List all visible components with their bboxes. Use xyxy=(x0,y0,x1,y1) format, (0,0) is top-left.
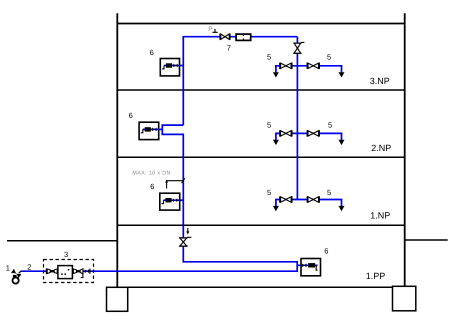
svg-text:2: 2 xyxy=(27,262,31,271)
valve 5 right 3.NP xyxy=(306,63,308,69)
valve 5 left 1.NP xyxy=(279,196,281,202)
wire: 1.NP branch arm xyxy=(276,200,342,207)
wire: right distribution riser xyxy=(296,37,298,200)
wire: 1.PP horizontal to left riser xyxy=(183,261,298,263)
basement floor slab xyxy=(128,286,393,288)
dashed enclosure box 3 xyxy=(44,260,94,283)
outlet arrow left 2.NP xyxy=(273,140,279,145)
svg-text:5: 5 xyxy=(267,188,271,197)
svg-text:5: 5 xyxy=(328,120,332,129)
svg-text:2.NP: 2.NP xyxy=(371,143,391,153)
valve at top pipe xyxy=(219,34,221,40)
check valve (filled) xyxy=(85,269,87,273)
building right wall xyxy=(404,13,406,286)
wire: street service pipe (node 2) xyxy=(21,270,298,272)
svg-text:P: P xyxy=(208,26,212,33)
floor slab above 1.NP (bottom of 2.NP) xyxy=(117,156,404,158)
svg-text:6: 6 xyxy=(129,111,133,120)
building left wall xyxy=(116,13,118,287)
ground line right xyxy=(405,239,448,241)
water meter 7 xyxy=(236,34,251,40)
wire: 3.NP branch arm xyxy=(276,66,342,73)
wire: stub into basement meter box 6 xyxy=(297,264,317,266)
svg-text:3: 3 xyxy=(64,250,68,259)
meter box 6 (1.PP) xyxy=(301,259,321,276)
svg-text:3.NP: 3.NP xyxy=(370,76,390,86)
valve 5 left 3.NP xyxy=(279,63,281,69)
outlet arrow left 1.NP xyxy=(273,206,279,211)
flow arrow at 1.PP riser xyxy=(187,228,189,232)
svg-text:5: 5 xyxy=(327,53,331,62)
wire: 3.NP box connection xyxy=(170,65,183,67)
apartment meter box 6 (1.NP) xyxy=(160,193,180,210)
svg-text:5: 5 xyxy=(327,188,331,197)
wire: 2.NP box connection stub xyxy=(155,128,162,130)
valve 5 right 2.NP xyxy=(306,130,308,136)
wire: left riser lower section xyxy=(182,134,184,262)
svg-text:6: 6 xyxy=(150,182,154,191)
floor slab above 1.PP (bottom of 1.NP) xyxy=(117,224,404,226)
wire: 2.NP branch arm xyxy=(276,133,342,140)
outlet arrow right 3.NP xyxy=(339,72,345,77)
valve on right riser 3.NP (hourglass) xyxy=(293,42,301,44)
svg-text:5: 5 xyxy=(267,53,271,62)
floor slab above 2.NP (bottom of 3.NP) xyxy=(117,89,404,91)
pressure gauge tap symbol (P) xyxy=(212,29,217,32)
valve 5 right 1.NP xyxy=(306,196,308,202)
union fitting right of main meter xyxy=(73,269,76,274)
wire: top distribution pipe under roof xyxy=(183,36,298,38)
wire: left riser upper section xyxy=(182,37,184,125)
svg-text:1: 1 xyxy=(6,263,10,272)
outlet arrow left 3.NP xyxy=(273,72,279,77)
outlet arrow right 1.NP xyxy=(339,206,345,211)
left foundation footing xyxy=(107,287,128,311)
apartment meter box 6 (3.NP) xyxy=(160,59,179,76)
ground line left xyxy=(7,240,117,242)
wire: riser jog at 2.NP xyxy=(162,125,184,134)
wire: 1.NP box connection xyxy=(170,199,183,201)
svg-text:MAX. 10 x DN: MAX. 10 x DN xyxy=(132,170,170,176)
outlet arrow right 2.NP xyxy=(339,140,345,145)
svg-text:6: 6 xyxy=(150,48,154,57)
union fitting left of main meter xyxy=(45,268,47,274)
svg-text:1.PP: 1.PP xyxy=(366,271,386,281)
water main tap (node 1) xyxy=(13,277,19,283)
valve 5 left 2.NP xyxy=(279,130,281,136)
wire: 1.PP connector vertical xyxy=(296,262,298,272)
svg-text:1.NP: 1.NP xyxy=(370,211,390,221)
roof slab xyxy=(117,23,406,25)
drain valve on left riser 1.PP (hourglass) xyxy=(179,237,187,239)
svg-text:6: 6 xyxy=(324,246,328,255)
main water meter (in assembly 3) xyxy=(58,266,73,279)
svg-text:5: 5 xyxy=(267,120,271,129)
apartment meter box 6 (2.NP) xyxy=(139,122,159,139)
right foundation footing xyxy=(393,286,416,311)
svg-text:7: 7 xyxy=(227,44,231,53)
dimension leader MAX 10xDN xyxy=(167,181,184,189)
